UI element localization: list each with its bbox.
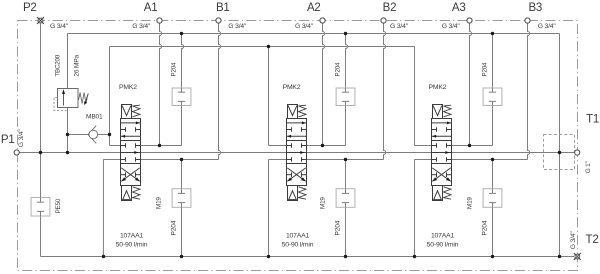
wire M19-1 drop to tank [181, 160, 183, 189]
svg-text:G 3/4": G 3/4" [50, 23, 69, 30]
plug P204-3 (top) [483, 88, 502, 106]
wire valve2 lower-left to tank [269, 159, 287, 161]
svg-text:PE50: PE50 [55, 198, 62, 213]
wire rail2 drop into valve2 [268, 47, 270, 146]
svg-text:B2: B2 [383, 2, 397, 14]
svg-text:P204: P204 [482, 220, 489, 235]
svg-text:107AA1: 107AA1 [286, 232, 310, 239]
relief valve TBC200 [54, 89, 88, 111]
svg-text:M19: M19 [155, 197, 162, 209]
port T2 (plugged) [574, 253, 581, 260]
svg-text:A2: A2 [307, 2, 321, 14]
wire P204-2 riser [346, 34, 348, 89]
wire port A2 drop [323, 23, 325, 146]
svg-text:PMK2: PMK2 [283, 84, 301, 91]
port B3 [525, 18, 530, 23]
svg-text:MB01: MB01 [86, 114, 103, 121]
svg-text:P204: P204 [171, 220, 178, 235]
wire P204-1 riser [182, 34, 184, 89]
junction dots rail1 [180, 32, 183, 35]
svg-text:P204: P204 [481, 62, 488, 76]
svg-text:P2: P2 [23, 2, 37, 14]
valve PMK2 #2 top solenoid [288, 105, 298, 119]
wire M19-2 drop to tank [345, 160, 347, 189]
wire PE50 to tank line [40, 216, 42, 257]
wire P204-3 riser [492, 34, 494, 89]
plug M19-3 [483, 189, 502, 208]
svg-text:M19: M19 [319, 197, 326, 209]
port B1 [216, 18, 221, 23]
wire P line from P1 to T1 [19, 152, 575, 154]
plug P204-2 (top) [336, 88, 355, 106]
svg-text:G 3/4": G 3/4" [295, 23, 314, 30]
valve PMK2 #2 body [287, 119, 307, 186]
port B2 [381, 18, 386, 23]
svg-text:G 3/4": G 3/4" [18, 129, 25, 148]
wire valve3 A-port line [452, 145, 493, 147]
wire tank bottom line to T2 [41, 256, 575, 258]
wire port A1 drop [160, 23, 162, 146]
valve PMK2 #3 top spring [444, 105, 452, 117]
plug M19-1 [172, 189, 191, 208]
valve PMK2 #1 body [121, 119, 141, 186]
svg-text:B1: B1 [216, 2, 230, 14]
wire valve2 A-port line [307, 145, 346, 147]
wire port B2 drop [384, 23, 386, 160]
valve PMK2 #2 top spring [299, 105, 307, 117]
svg-text:P1: P1 [1, 134, 15, 146]
plug P204-1 (top) [172, 88, 191, 106]
wire valve1 B-port line [141, 159, 219, 161]
wire P2 drop to P line [40, 23, 42, 153]
svg-text:G 3/4": G 3/4" [570, 231, 577, 250]
junction dots P line [39, 151, 42, 154]
valve PMK2 #2 bottom spring [299, 187, 307, 199]
wire port B3 drop [528, 23, 530, 160]
svg-text:50-90 l/min: 50-90 l/min [282, 241, 314, 248]
junction dots A lines [158, 144, 161, 147]
svg-text:PMK2: PMK2 [429, 84, 447, 91]
svg-text:TBC200: TBC200 [55, 54, 62, 76]
port P1 [14, 150, 19, 155]
svg-text:M19: M19 [466, 197, 473, 209]
port P2 (plugged) [37, 17, 44, 24]
svg-text:107AA1: 107AA1 [120, 232, 144, 239]
svg-text:50-90 l/min: 50-90 l/min [427, 241, 459, 248]
svg-text:50-90 l/min: 50-90 l/min [116, 241, 148, 248]
check valve MB01 [88, 126, 98, 144]
wire port B1 drop [219, 23, 221, 160]
valve PMK2 #1 bottom solenoid [122, 186, 132, 201]
svg-text:PMK2: PMK2 [119, 84, 137, 91]
junction dots B lines [180, 158, 183, 161]
svg-text:G 3/4": G 3/4" [538, 23, 557, 30]
junction dot rail2 [267, 45, 270, 48]
port A2 [320, 18, 325, 23]
svg-text:A1: A1 [144, 2, 158, 14]
svg-text:26 MPa: 26 MPa [74, 54, 81, 76]
wire port A3 drop [470, 23, 472, 146]
wire valve3 B-port line [452, 159, 528, 161]
wire rail1 (tank rail to T1) [68, 33, 560, 35]
wire rail2 left drop into valve1 [109, 47, 111, 146]
junction dots tank line [102, 255, 105, 258]
valve PMK2 #3 bottom spring [444, 187, 452, 199]
wire valve1 lower-left to tank [103, 159, 120, 161]
wire T1 riser (rail1 to T1 to tank line) [559, 34, 561, 257]
valve PMK2 #3 top solenoid [433, 105, 443, 119]
svg-text:G 3/4": G 3/4" [442, 23, 461, 30]
wire relief valve riser [67, 34, 69, 89]
wire valve2 B-port line [307, 159, 384, 161]
wire rail2 (pressure rail after check valve) [110, 46, 415, 48]
plug PE50 [31, 198, 50, 217]
valve PMK2 #1 bottom spring [133, 187, 141, 199]
svg-text:107AA1: 107AA1 [431, 232, 455, 239]
svg-text:P204: P204 [334, 62, 341, 76]
svg-text:G 3/4": G 3/4" [228, 23, 247, 30]
port A3 [467, 18, 472, 23]
svg-text:A3: A3 [452, 2, 466, 14]
wire rail2 drop into valve3 [414, 47, 416, 146]
valve PMK2 #3 bottom solenoid [433, 186, 443, 201]
svg-text:G 1": G 1" [585, 161, 592, 173]
wire valve3 lower-left to tank [415, 159, 432, 161]
junction dots check line [66, 133, 69, 136]
valve PMK2 #2 bottom solenoid [288, 186, 298, 201]
svg-text:P204: P204 [170, 62, 177, 76]
valve PMK2 #3 body [432, 119, 452, 186]
svg-text:P204: P204 [335, 220, 342, 235]
svg-text:T1: T1 [586, 113, 599, 125]
wire P line to PE50 [40, 153, 42, 198]
valve PMK2 #1 top spring [133, 105, 141, 117]
wire check-valve branch line [68, 134, 89, 136]
T1 optional connection dashed box [544, 135, 575, 170]
port T1 [575, 150, 580, 155]
plug M19-2 [336, 189, 355, 208]
valve PMK2 #1 top solenoid [122, 105, 132, 119]
wire M19-3 drop to tank [492, 160, 494, 189]
port A1 [157, 18, 162, 23]
svg-text:T2: T2 [585, 234, 598, 246]
wire valve1 A-port line [141, 145, 182, 147]
svg-text:B3: B3 [528, 2, 542, 14]
svg-text:G 3/4": G 3/4" [390, 23, 409, 30]
svg-text:G 3/4": G 3/4" [132, 23, 151, 30]
